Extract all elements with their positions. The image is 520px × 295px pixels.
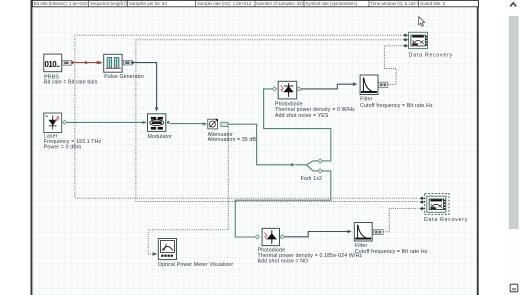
svg-text:Data Recovery: Data Recovery	[424, 217, 468, 223]
mouse cursor	[419, 17, 425, 26]
svg-text:Sample rate (Hz): 1.0e+012: Sample rate (Hz): 1.0e+012	[197, 1, 252, 6]
wire W8 Fork bottom to Photodiode 2 (optical)	[235, 171, 330, 239]
svg-text:Filter: Filter	[360, 97, 373, 103]
svg-text:Pulse Generator: Pulse Generator	[104, 74, 144, 80]
svg-text:Bit rate = Bit rate bit/s: Bit rate = Bit rate bit/s	[44, 80, 98, 86]
svg-text:Optical Power Meter Visualizer: Optical Power Meter Visualizer	[158, 262, 233, 268]
wire: dotted Filter 1 to Data Recovery 1	[384, 46, 402, 85]
svg-text:Samples per bit: 64: Samples per bit: 64	[129, 1, 167, 6]
Filter 2 component	[354, 223, 427, 256]
wire W5 Attenuator to Fork (optical)	[228, 124, 295, 166]
Pulse Generator component	[98, 54, 144, 80]
canvas right border	[477, 0, 479, 295]
wire W1 PRBS to Pulse Generator (binary, red)	[73, 61, 101, 65]
Data Recovery 2 component (selected)	[419, 193, 468, 222]
wire W4 Modulator to Attenuator (optical)	[170, 122, 207, 126]
arrow into power meter	[153, 252, 158, 255]
svg-text:Guard bits: 0: Guard bits: 0	[420, 1, 446, 6]
svg-text:Symbol rate (symbols/sec): Symbol rate (symbols/sec)	[305, 1, 357, 6]
svg-text:Fork 1x2: Fork 1x2	[301, 176, 322, 182]
Optical Power Meter Visualizer component	[158, 239, 233, 269]
svg-text:010..: 010..	[45, 60, 60, 69]
wire W9 Photodiode 2 to Filter 2 (electrical)	[284, 230, 352, 237]
svg-text:Data Recovery: Data Recovery	[409, 52, 453, 58]
svg-text:Add shot noise = YES: Add shot noise = YES	[275, 113, 329, 119]
wire W3 Laser to Modulator (optical)	[63, 120, 147, 124]
Laser component	[44, 113, 102, 151]
wire: dotted PRBS to Data Recovery 1 and 2	[75, 35, 418, 198]
Photodiode 2 component	[258, 228, 363, 264]
wire W7 Photodiode 1 to Filter 1 (electrical)	[300, 82, 357, 89]
PRBS component	[44, 54, 98, 86]
parameter status bar	[32, 0, 478, 6]
svg-text:Add shot noise = NO: Add shot noise = NO	[258, 259, 309, 265]
Modulator component	[148, 114, 173, 140]
wire: dotted Attenuator to Optical Power Meter	[148, 127, 228, 254]
fork 1x2	[296, 159, 323, 173]
Photodiode 1 component	[275, 81, 355, 119]
svg-text:Attenuation = 35 dB: Attenuation = 35 dB	[208, 137, 257, 143]
wire: dotted Filter 2 to Data Recovery 2	[383, 209, 418, 232]
svg-text:Cutoff frequency = Bit rate H: Cutoff frequency = Bit rate Hz	[360, 103, 433, 109]
svg-text:Cutoff frequency = Bit rate H: Cutoff frequency = Bit rate Hz	[355, 249, 428, 255]
wire W6 Fork top to Photodiode 1 (optical)	[264, 87, 331, 161]
Filter 1 component	[360, 75, 433, 109]
svg-text:Power = 0 dBm: Power = 0 dBm	[44, 145, 82, 151]
Data Recovery 1 component	[403, 32, 453, 58]
wire: dotted Pulse Generator to Data Recovery 1 and 2	[136, 40, 418, 202]
svg-text:Number of samples: 8192: Number of samples: 8192	[256, 1, 307, 6]
svg-text:Bit rate (bits/sec): 1.5e+01: Bit rate (bits/sec): 1.5e+010	[34, 1, 88, 6]
vertical scrollbar	[508, 0, 520, 295]
wire W2 Pulse Generator to Modulator (electrical, blue)	[133, 63, 158, 112]
svg-text:Modulator: Modulator	[148, 134, 173, 140]
svg-text:Time window (s): 5.12e-00: Time window (s): 5.12e-00	[370, 1, 422, 6]
Attenuator component	[208, 119, 257, 143]
canvas left border	[31, 0, 33, 295]
